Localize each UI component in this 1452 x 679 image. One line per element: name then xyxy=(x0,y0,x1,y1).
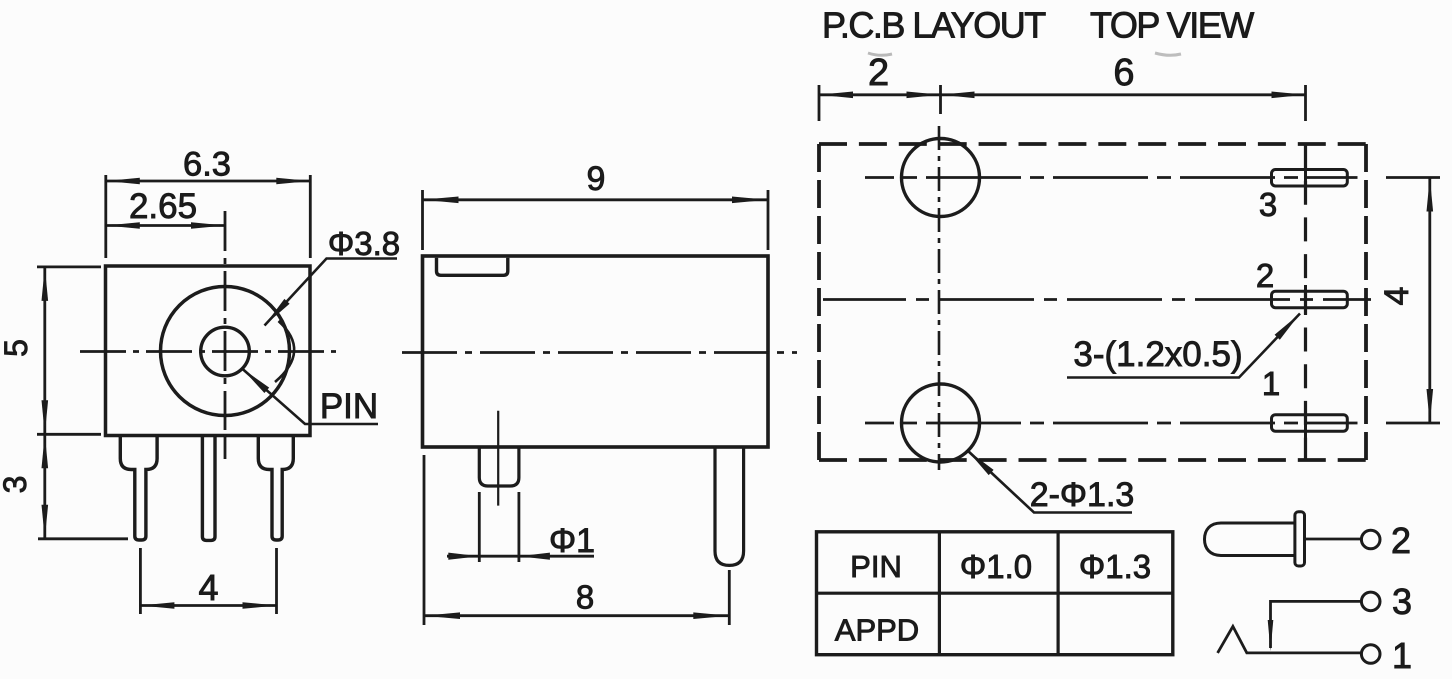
dim 2.65 right arrow xyxy=(191,222,225,229)
dim 6.3 right arrow xyxy=(276,178,310,185)
front view bushing circle &#934;3.8 xyxy=(161,287,290,416)
svg-text:1: 1 xyxy=(1262,365,1280,402)
mount hole top 2-&#934;1.3 xyxy=(902,139,980,217)
label &#934;3.8 arrow xyxy=(265,299,290,326)
dim 3 bottom extension line xyxy=(38,537,128,540)
dim 9 line xyxy=(423,198,769,201)
dim 2 middle tick xyxy=(939,85,942,114)
dim 6.3 left extension line xyxy=(104,175,107,258)
dim 4 bottom extension line xyxy=(1386,422,1440,425)
pad 2 xyxy=(1272,291,1348,308)
dim 4 right extension line xyxy=(275,548,278,614)
dim 5 line xyxy=(43,267,46,434)
dim 8 right extension line xyxy=(728,570,731,625)
bushing inner arc xyxy=(275,321,294,382)
dim &#934;1 right extension line xyxy=(518,492,521,562)
dim 3 bottom arrow xyxy=(42,505,49,539)
dim 6.3 right extension line xyxy=(309,175,312,258)
pad column solid segment through pad 3 xyxy=(1304,163,1307,193)
front view left terminal xyxy=(120,436,157,540)
svg-text:6: 6 xyxy=(1113,52,1134,94)
dim 6 right arrow xyxy=(1272,92,1306,99)
dim 8 left extension line xyxy=(423,455,426,625)
svg-text:PIN: PIN xyxy=(320,387,378,426)
mount hole bottom 2-&#934;1.3 xyxy=(902,384,980,462)
label &#934;3.8 leader xyxy=(265,259,398,326)
switch contact arrow xyxy=(1268,620,1274,651)
side view front terminal centerline xyxy=(497,411,499,506)
svg-text:3-(1.2x0.5): 3-(1.2x0.5) xyxy=(1073,335,1242,374)
dim 4 vertical line xyxy=(1428,178,1431,424)
dim 6 line xyxy=(941,93,1306,96)
front view center pin hole xyxy=(201,327,250,376)
dim 2.65 line xyxy=(106,224,225,227)
dim 6.3 left arrow xyxy=(106,178,140,185)
pcb pad column dashed line xyxy=(1304,144,1307,460)
wire to terminal 2 xyxy=(1305,538,1362,541)
svg-text:8: 8 xyxy=(576,579,594,616)
dim 2.65 left arrow xyxy=(106,222,140,229)
front view right terminal xyxy=(258,436,293,540)
side view front terminal xyxy=(479,448,519,487)
table column line 2 xyxy=(1056,532,1059,655)
dim &#934;1 line xyxy=(447,555,594,558)
scan smudge under P.C.B xyxy=(868,53,892,55)
dim 8 line xyxy=(424,614,729,617)
pcb outline right edge xyxy=(1364,144,1368,460)
front view middle terminal xyxy=(202,436,215,541)
pad column solid segment through pad 1 xyxy=(1304,409,1307,439)
front view vertical centerline xyxy=(224,211,227,430)
dim 8 right arrow xyxy=(693,612,729,619)
dim 6 right extension line xyxy=(1304,85,1307,121)
svg-text:2: 2 xyxy=(868,52,889,94)
dim 9 left extension line xyxy=(421,190,424,250)
dim 9 right arrow xyxy=(732,197,768,204)
svg-text:2: 2 xyxy=(1256,257,1274,294)
svg-text:Φ3.8: Φ3.8 xyxy=(328,225,400,262)
front view horizontal centerline xyxy=(80,350,336,353)
table column line 1 xyxy=(938,532,941,655)
jack barrel symbol xyxy=(1205,523,1295,556)
pcb outline top edge xyxy=(819,142,1366,146)
svg-text:9: 9 xyxy=(587,160,606,198)
pad column solid segment through pad 2 xyxy=(1304,285,1307,315)
dim 9 left arrow xyxy=(423,197,459,204)
pcb row 1 centerline xyxy=(865,422,1358,425)
pcb vertical centerline xyxy=(938,126,941,470)
dim 8 left arrow xyxy=(424,612,460,619)
svg-text:Φ1.0: Φ1.0 xyxy=(960,548,1032,585)
switch spring contact xyxy=(1218,626,1362,653)
svg-text:5: 5 xyxy=(0,339,34,357)
label PIN leader xyxy=(242,369,378,425)
label 2-&#934;1.3 arrow xyxy=(967,450,994,475)
table outer frame xyxy=(817,532,1173,655)
dim 9 right extension line xyxy=(767,190,770,250)
dim 6.3 line xyxy=(106,180,310,183)
dim 3 top arrow xyxy=(42,434,49,468)
dim 5 top extension line xyxy=(37,265,101,268)
svg-text:2-Φ1.3: 2-Φ1.3 xyxy=(1030,476,1135,514)
dim 4 line xyxy=(140,604,276,607)
dim 5 bottom extension line xyxy=(37,433,101,436)
dim 2 left extension line xyxy=(818,85,821,121)
svg-text:Φ1.3: Φ1.3 xyxy=(1079,548,1151,585)
svg-text:4: 4 xyxy=(198,567,218,608)
svg-text:4: 4 xyxy=(1378,287,1416,306)
dim 2 right arrow xyxy=(907,92,941,99)
terminal 3 circle xyxy=(1361,592,1380,611)
pcb outline bottom edge xyxy=(819,458,1366,462)
dim 2 line xyxy=(819,93,941,96)
label 3-(1.2x0.5) arrow xyxy=(1275,314,1300,340)
svg-text:P.C.B LAYOUT: P.C.B LAYOUT xyxy=(822,5,1046,46)
label PIN arrow xyxy=(242,369,269,394)
pcb outline left edge xyxy=(817,144,821,460)
front view body xyxy=(106,266,311,436)
pcb row 3 centerline xyxy=(865,176,1358,179)
dim &#934;1 left arrow xyxy=(448,553,479,560)
dim 4 left extension line xyxy=(139,548,142,614)
dim 6 left arrow xyxy=(941,92,975,99)
svg-text:1: 1 xyxy=(1392,635,1412,676)
svg-text:3: 3 xyxy=(1259,186,1277,223)
dim 3 line xyxy=(43,434,46,539)
dim 4 down arrow xyxy=(1427,389,1434,423)
svg-text:3: 3 xyxy=(1392,581,1412,622)
svg-text:APPD: APPD xyxy=(835,613,919,648)
scan smudge under TOP VIEW xyxy=(1155,53,1181,55)
pcb row 2 centerline xyxy=(823,298,1371,301)
dim 4 left arrow xyxy=(140,602,174,609)
jack flange xyxy=(1295,512,1305,566)
pad 1 xyxy=(1272,415,1348,432)
terminal 1 circle xyxy=(1361,645,1380,664)
svg-text:3: 3 xyxy=(0,476,33,494)
dim 5 top arrow xyxy=(42,267,49,301)
svg-text:2.65: 2.65 xyxy=(129,187,197,226)
dim &#934;1 left extension line xyxy=(478,492,481,562)
front view vertical centerline lower segment xyxy=(224,434,227,459)
wire from terminal 3 xyxy=(1271,601,1362,648)
table middle horizontal line xyxy=(817,592,1173,595)
side view notch xyxy=(437,258,508,276)
svg-text:2: 2 xyxy=(1391,520,1411,561)
svg-text:Φ1: Φ1 xyxy=(549,522,595,560)
dim 4 top extension line xyxy=(1386,176,1440,179)
pad 3 xyxy=(1272,170,1348,187)
dim &#934;1 right arrow xyxy=(519,553,550,560)
side view body xyxy=(423,256,769,447)
dim 4 up arrow xyxy=(1427,178,1434,212)
label 3-(1.2x0.5) leader xyxy=(1067,314,1300,378)
dim 5 bottom arrow xyxy=(42,400,49,434)
svg-text:6.3: 6.3 xyxy=(183,146,231,184)
label 2-&#934;1.3 leader xyxy=(967,450,1132,513)
svg-text:PIN: PIN xyxy=(850,549,902,584)
side view horizontal centerline xyxy=(402,351,797,354)
svg-text:TOP VIEW: TOP VIEW xyxy=(1090,5,1254,46)
dim 2 left arrow xyxy=(819,92,853,99)
dim 4 right arrow xyxy=(243,602,277,609)
side view rear terminal xyxy=(715,448,744,566)
terminal 2 circle xyxy=(1361,530,1380,549)
